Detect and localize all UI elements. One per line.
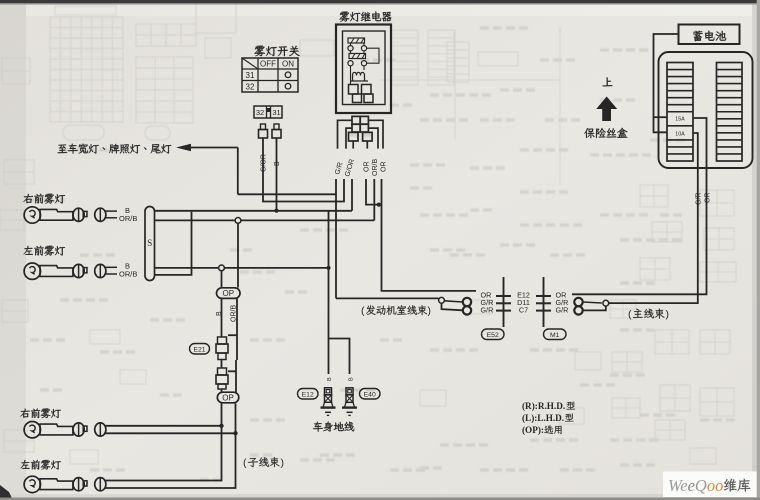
fuse column with 15A and 10A fuses [667, 63, 693, 162]
svg-text:OP: OP [222, 394, 234, 403]
relay lower connector pins [338, 116, 384, 148]
wire G/R to E52 [336, 297, 439, 299]
svg-text:31: 31 [246, 71, 255, 80]
label OR relay pin [364, 162, 371, 173]
label G/R [556, 298, 569, 307]
svg-text:E12: E12 [302, 392, 314, 399]
label OR/B rotated [231, 305, 238, 322]
switch plug connector [259, 124, 282, 138]
svg-text:OR: OR [381, 162, 388, 173]
label C7 [519, 305, 528, 314]
label OR fuse wire [704, 193, 711, 204]
svg-text:32: 32 [256, 108, 264, 117]
label B [125, 262, 130, 271]
svg-text:OR: OR [364, 162, 371, 173]
svg-text:OR/B: OR/B [372, 159, 379, 176]
wire battery to 15A fuse [654, 116, 668, 118]
relay U1 outer case [336, 25, 391, 114]
svg-text:10A: 10A [675, 132, 685, 138]
wire B between connectors [221, 360, 223, 369]
lamp left front fog [24, 263, 117, 279]
connector terminals main-harness side [574, 298, 606, 315]
label G/OR [261, 154, 268, 172]
wire B relay pin down [351, 179, 353, 211]
oval M1 [544, 329, 567, 340]
fog lamp switch S1 contact table [242, 58, 298, 92]
label 车身地线 body ground [313, 422, 354, 432]
svg-text:G/R: G/R [556, 305, 569, 314]
label 保险丝盒 fuse box [584, 128, 627, 138]
wire ground feed down [328, 211, 330, 374]
label 上 (up) [603, 77, 613, 86]
svg-text:(R):R.H.D.: (R):R.H.D. [522, 401, 565, 411]
svg-text:ON: ON [282, 60, 294, 69]
wire G/R tail-lamp branch vertical [237, 148, 239, 195]
svg-text:(: ( [628, 309, 632, 321]
svg-text:OP: OP [223, 289, 235, 298]
ground connector E40 [342, 388, 357, 416]
wire G/R M1 to fuse [609, 168, 698, 303]
label B switch [274, 161, 281, 166]
svg-text:(OP):: (OP): [522, 425, 544, 435]
label (发动机室线束) engine room harness [361, 305, 431, 317]
fuse box outline [659, 52, 753, 168]
node G/R split (open circle) [439, 297, 445, 303]
label OR [556, 290, 567, 299]
label 右前雾灯 (right front fog lamp) [23, 194, 65, 204]
connector junction bars E12/D11/C7 [496, 277, 551, 327]
lamp right front fog (OP) [24, 422, 106, 438]
wire G/R relay branch horizontal [238, 193, 336, 195]
switch position circle 32-ON [285, 83, 291, 89]
svg-text:): ) [281, 457, 285, 469]
svg-text:OR/B: OR/B [119, 214, 137, 223]
relay U1 inner case [343, 31, 386, 105]
oval E21 [190, 344, 210, 355]
label OR/B [119, 270, 137, 279]
label S [147, 238, 152, 248]
svg-text:(: ( [243, 457, 247, 469]
label 蓄电池 battery [693, 31, 726, 42]
svg-text:C7: C7 [519, 305, 528, 314]
wire B to OP2 [221, 389, 223, 393]
switch connector pin block 32|31 [254, 106, 282, 118]
label D11 [517, 298, 530, 307]
svg-text:): ) [666, 309, 670, 321]
svg-text:G/R: G/R [695, 193, 702, 205]
label OR relay pin 2 [381, 162, 388, 173]
wire OR/B to lower lamps [105, 404, 236, 489]
label E12 [517, 290, 530, 299]
svg-text:OFF: OFF [260, 60, 276, 69]
switch position circle 31-ON [285, 72, 291, 78]
junction OR/B at lower right lamp [233, 431, 237, 435]
svg-text:E52: E52 [487, 332, 499, 339]
label B [125, 206, 130, 215]
label fog lamp switch 雾灯开关 [254, 46, 299, 57]
wire S loop [155, 212, 192, 275]
wire OR/B node down to OP [237, 223, 239, 287]
connector E21 [216, 337, 228, 360]
watermark WeeQoo [663, 472, 757, 498]
wire G/OR switch to relay [263, 138, 344, 202]
wire B to lower lamps [105, 404, 222, 481]
node G/R merge (open circle) [603, 300, 609, 306]
lamp right front fog [24, 207, 117, 223]
connector terminals engine-harness side [442, 298, 472, 315]
label fog lamp relay 雾灯继电器 [339, 12, 391, 22]
label G/R [481, 305, 494, 314]
svg-text:G/R: G/R [481, 305, 494, 314]
label 右前雾灯 lower [20, 408, 60, 418]
option oval OP 2 [217, 392, 239, 403]
wire B upper prong lower right lamp [105, 425, 222, 427]
option oval OP [217, 288, 241, 299]
label 左前雾灯 lower [21, 460, 61, 470]
wire branch to E40 ground [329, 339, 350, 375]
svg-text:B: B [349, 377, 355, 381]
svg-text:G/OR: G/OR [261, 154, 268, 172]
svg-text:31: 31 [272, 108, 280, 117]
legend RHD/LHD/OP [522, 401, 575, 435]
oval E12 [298, 389, 319, 400]
label B at E40 [349, 377, 355, 381]
wire fuse 10A to G/R [693, 133, 698, 168]
wire B switch down [276, 138, 278, 211]
wire B-net horizontal (S to relay B pin) [155, 210, 353, 212]
junction OR pins [377, 203, 381, 207]
label (主线束) main harness [628, 309, 669, 321]
svg-text:B: B [274, 161, 281, 166]
wire OR relay pin jog [366, 179, 382, 205]
label G/R [481, 298, 494, 307]
svg-text:OR/B: OR/B [119, 270, 137, 279]
stub OR/B into E21 connector [228, 334, 237, 336]
label B at E12 [327, 377, 333, 381]
label OR/B relay pin [372, 159, 379, 176]
wire OR/B below OP [236, 299, 238, 361]
ground connector E12 [321, 388, 336, 416]
wire OR/B mid [235, 360, 237, 393]
label G/R fuse wire [695, 193, 702, 205]
label B rotated [216, 311, 223, 316]
svg-text:E40: E40 [364, 392, 376, 399]
svg-text:15A: 15A [675, 117, 685, 123]
wire S lower to ground net [155, 267, 329, 269]
wire OR M1 to fuse [572, 168, 707, 294]
junction ground net [326, 266, 330, 270]
svg-text:B: B [327, 377, 333, 381]
label (子线束) sub harness [243, 457, 284, 469]
svg-text:M1: M1 [550, 332, 560, 339]
junction B at lower right lamp [219, 424, 223, 428]
label OR/B [119, 214, 137, 223]
stub OR/B into lower connector [228, 370, 236, 372]
label G/OR relay pin [344, 158, 356, 177]
label G/R relay pin [334, 162, 344, 176]
svg-text:(: ( [361, 305, 365, 317]
label 左前雾灯 (left front fog lamp) [24, 246, 66, 256]
label OR [481, 290, 492, 299]
connector below E21 [216, 368, 228, 389]
node OR/B branch (open circle) [235, 218, 241, 224]
node lamp ground branch (open circle) [219, 265, 225, 271]
svg-text:): ) [428, 305, 432, 317]
label 至车宽灯、牌照灯、尾灯 [58, 144, 172, 154]
up arrow [596, 97, 617, 122]
arrow to clearance/license/tail lamps [176, 144, 238, 151]
oval E40 [360, 389, 381, 400]
wire OR/B horizontal to node [155, 219, 375, 221]
svg-text:E21: E21 [193, 347, 205, 354]
wire OR/B lower prong lower right lamp [105, 432, 236, 434]
wire B below OP [221, 299, 223, 338]
wire G/R relay pin down to E52 [335, 179, 337, 298]
oval E52 [482, 329, 505, 340]
wire OR/B relay pin down [373, 179, 375, 220]
svg-text:32: 32 [246, 83, 255, 92]
label G/R [556, 305, 569, 314]
svg-text:S: S [147, 238, 152, 248]
svg-text:(L):L.H.D.: (L):L.H.D. [522, 413, 564, 423]
splice S capsule [145, 207, 155, 281]
wire fuse 15A to OR [693, 118, 707, 168]
battery terminal box [679, 25, 740, 45]
wire B node down to OP [221, 271, 223, 288]
lamp left front fog (OP) [24, 476, 106, 492]
svg-text:WeeQoo: WeeQoo [668, 476, 723, 495]
junction B to B-net [274, 209, 278, 213]
fuse column right [717, 63, 743, 162]
svg-text:OR: OR [704, 193, 711, 204]
wire OR to E52 connector [382, 179, 477, 291]
wire battery to fuses [654, 34, 679, 132]
relay U1 internal circuit [348, 38, 379, 103]
